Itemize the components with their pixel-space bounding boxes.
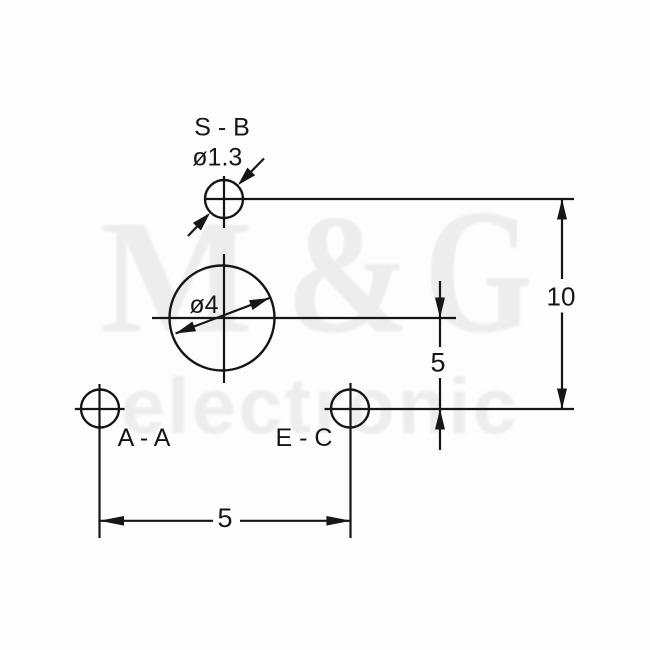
bottom dimension line y=409 — [325, 408, 575, 410]
leader line lower-left for D1.3 — [188, 215, 208, 236]
svg-text:&: & — [286, 179, 411, 368]
arrowhead D4 left — [176, 322, 197, 334]
arrowhead dim5mid pointing up at y=409 — [435, 409, 445, 430]
hole D4 circle — [170, 266, 275, 371]
arrowhead leader upper-right at S-B — [238, 168, 255, 185]
svg-text:ø4: ø4 — [189, 291, 218, 319]
svg-text:10: 10 — [547, 282, 576, 312]
hole S-B circle — [205, 180, 243, 218]
svg-text:5: 5 — [430, 348, 445, 378]
arrowhead dim10 top (points up) — [557, 199, 567, 220]
arrowhead D4 right — [249, 298, 270, 310]
hole D4 diameter arrow shaft — [176, 298, 270, 334]
dimension 10 vertical line lower segment — [561, 313, 563, 410]
hole A-A vertical extension line — [98, 384, 100, 538]
hole A-A horizontal centerline — [75, 408, 125, 410]
svg-text:E - C: E - C — [276, 424, 333, 452]
leader line upper-right for D1.3 — [240, 159, 264, 184]
hole A-A circle — [81, 390, 119, 428]
svg-text:M: M — [100, 188, 253, 367]
hole E-C vertical extension line — [349, 383, 351, 538]
svg-text:5: 5 — [217, 503, 232, 533]
dimension 5 vertical line upper segment — [439, 281, 441, 347]
arrowhead dim10 bottom (points down) — [557, 389, 567, 410]
watermark M&G — [100, 172, 533, 370]
hole D4 vertical centerline — [223, 254, 225, 383]
arrowhead leader lower-left at S-B — [193, 213, 210, 231]
arrowhead dim5 bottom left (points left) — [99, 516, 124, 526]
arrowhead dim5mid pointing down at y=318 — [435, 298, 445, 319]
top dimension line y=199 — [204, 198, 574, 200]
arrowhead dim5 bottom right (points right) — [326, 516, 351, 526]
dimension 5 vertical line lower segment — [439, 378, 441, 450]
dimension 5 horizontal line left segment — [99, 520, 213, 522]
hole S-B vertical centerline — [223, 176, 225, 228]
dimension 5 horizontal line right segment — [240, 520, 351, 522]
svg-text:ø1.3: ø1.3 — [192, 144, 242, 172]
dimension 10 vertical line upper segment — [561, 199, 563, 279]
svg-text:A - A: A - A — [118, 424, 171, 452]
hole E-C circle — [331, 390, 369, 428]
hole D4 horizontal centerline — [152, 317, 456, 319]
svg-text:S - B: S - B — [194, 114, 250, 142]
